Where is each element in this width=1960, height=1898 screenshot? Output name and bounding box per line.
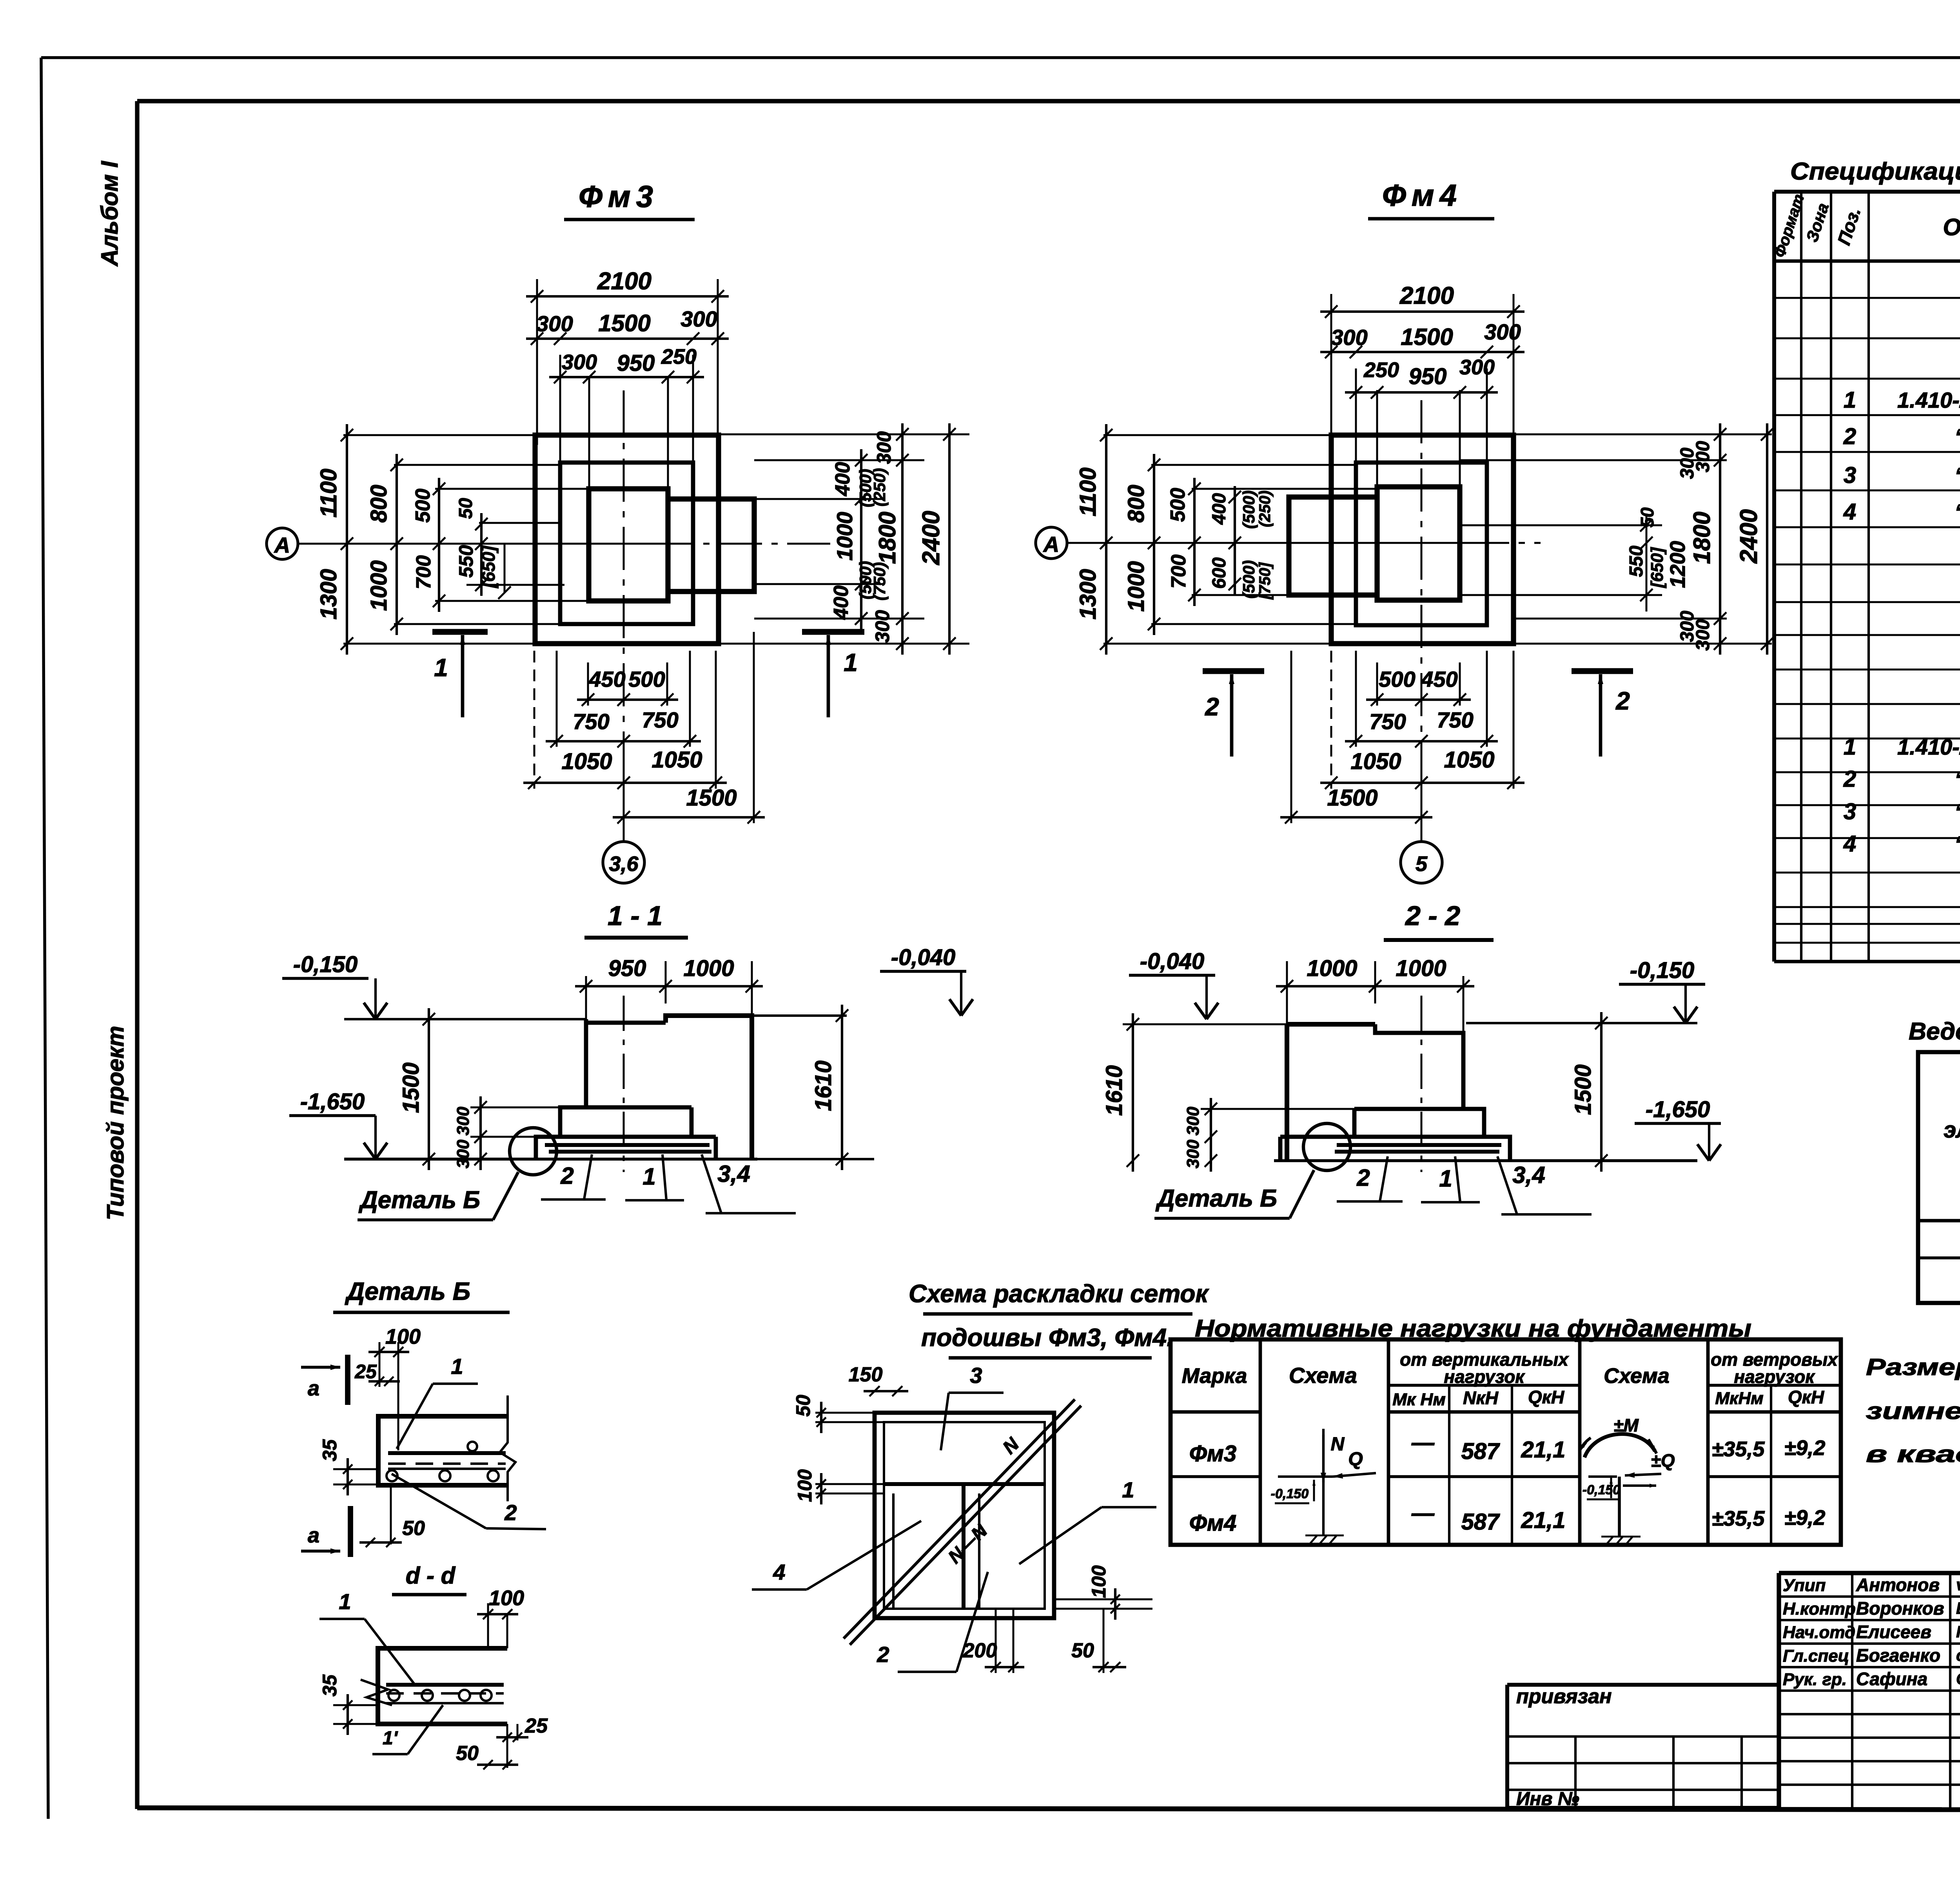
svg-text:1000: 1000	[1123, 561, 1149, 611]
svg-text:100: 100	[794, 1469, 816, 1502]
svg-text:нагрузок: нагрузок	[1734, 1366, 1815, 1387]
svg-text:2: 2	[560, 1163, 573, 1189]
схема label 3	[941, 1363, 1004, 1450]
svg-text:-0,150: -0,150	[1583, 1482, 1620, 1497]
section 1-1 slab reinforcement bars	[545, 1145, 711, 1152]
svg-text:1: 1	[844, 648, 858, 677]
svg-text:2400: 2400	[1735, 509, 1762, 564]
section 2-2 detail circle Б	[1303, 1123, 1350, 1170]
spec row 2 C(1)10AII-10x24	[1843, 424, 1960, 449]
svg-text:[650]: [650]	[1648, 547, 1667, 588]
d-d dim 25	[496, 1715, 548, 1742]
detail Б dim 100 top	[368, 1325, 421, 1450]
svg-text:1: 1	[1844, 387, 1856, 413]
d-d dim 35	[319, 1674, 378, 1735]
Фм3 plan title	[564, 179, 695, 220]
svg-text:±М: ±М	[1613, 1415, 1639, 1435]
svg-text:1: 1	[434, 653, 448, 682]
detail Б break line	[500, 1395, 515, 1501]
svg-text:±35,5: ±35,5	[1712, 1507, 1765, 1530]
svg-text:1: 1	[1439, 1165, 1452, 1192]
svg-text:-0,150: -0,150	[293, 952, 358, 977]
svg-text:1500: 1500	[1401, 324, 1453, 350]
svg-text:Богаенко: Богаенко	[1856, 1645, 1940, 1666]
svg-text:элемента: элемента	[1944, 1117, 1960, 1143]
section 2-2 bottom slab	[1280, 1137, 1510, 1161]
Фм4 bottom extension lines	[1291, 651, 1514, 842]
svg-text:N: N	[1331, 1434, 1345, 1455]
Фм3 outer footing square	[535, 435, 719, 644]
svg-text:NкН: NкН	[1463, 1388, 1499, 1408]
svg-text:1000: 1000	[366, 560, 392, 611]
svg-text:587: 587	[1461, 1439, 1501, 1464]
Фм4 axis circle 5	[1401, 842, 1442, 883]
svg-text:50: 50	[402, 1517, 425, 1540]
svg-text:550: 550	[455, 545, 477, 578]
svg-text:35: 35	[319, 1674, 341, 1697]
svg-text:1.410-2, вып.1: 1.410-2, вып.1	[1897, 388, 1960, 412]
Фм3 left extension lines	[343, 435, 589, 644]
detail Б label 2	[392, 1474, 546, 1529]
Фм3 vertical center line	[623, 390, 625, 741]
d-d label 3 bottom	[372, 1705, 443, 1754]
svg-text:Схема: Схема	[1604, 1364, 1670, 1388]
Фм3 right dim 300 1800 300	[871, 423, 909, 655]
Фм4 right dim 300 1800 300	[1677, 423, 1726, 655]
section 1-1 title	[584, 900, 688, 938]
svg-text:-0,150: -0,150	[1271, 1486, 1308, 1501]
svg-text:400: 400	[830, 586, 853, 620]
схема dim 50 left	[792, 1395, 884, 1433]
svg-text:1100: 1100	[316, 469, 341, 518]
Фм4 plan title	[1368, 178, 1494, 219]
svg-text:2 - 2: 2 - 2	[1405, 900, 1460, 931]
section 1-1 ground level line left	[344, 1018, 586, 1020]
Фм3 left dim 500 700	[412, 478, 445, 612]
svg-text:“: “	[1955, 799, 1960, 824]
d-d break line left	[361, 1680, 392, 1705]
Фм3 left dim 1100 1300	[316, 424, 353, 655]
section 1-1 center line	[623, 996, 625, 1172]
svg-text:привязан: привязан	[1516, 1685, 1612, 1708]
spec table grid	[1774, 192, 1960, 962]
svg-text:25: 25	[524, 1715, 548, 1737]
Фм4 dims 300 1500 300	[1320, 319, 1524, 358]
svg-text:700: 700	[1167, 555, 1190, 589]
svg-text:Фм3: Фм3	[1189, 1441, 1236, 1466]
section 1-1 ground line	[344, 1158, 757, 1161]
Фм4 right extension lines	[1460, 434, 1772, 644]
Фм3 bottom dim 1050 1050	[523, 747, 727, 789]
Фм3 right extension lines	[719, 434, 969, 644]
loads table data row Фм4	[1189, 1501, 1826, 1536]
title block outline	[1779, 1573, 1960, 1809]
svg-text:1800: 1800	[1689, 512, 1715, 564]
svg-text:2: 2	[877, 1642, 889, 1667]
схема mesh inner lines	[884, 1422, 1045, 1609]
section 2-2 ground level line right	[1466, 1022, 1697, 1024]
svg-text:1500: 1500	[598, 310, 650, 336]
Фм4 middle step square	[1356, 463, 1487, 625]
detail Б section marker a bottom	[301, 1506, 350, 1557]
section 1-1 dim 1610 vertical right	[752, 1005, 848, 1170]
svg-text:(250): (250)	[870, 468, 889, 506]
svg-text:1000: 1000	[832, 512, 857, 561]
svg-text:Н.контр: Н.контр	[1783, 1599, 1856, 1619]
section 2-2 title	[1384, 900, 1494, 940]
svg-text:950: 950	[617, 350, 655, 376]
svg-text:“: “	[1955, 767, 1960, 791]
section 2-2 rebar labels 2 1 3,4	[1337, 1156, 1592, 1214]
title block left привязан area	[1507, 1685, 1779, 1809]
схема mesh outer square	[875, 1413, 1054, 1618]
section 1-1 dim 300 300 vertical	[454, 1096, 560, 1170]
Фм4 right dim 50 550 [650] 1200	[1626, 507, 1690, 611]
svg-text:1000: 1000	[1307, 956, 1357, 981]
svg-text:4: 4	[773, 1560, 785, 1584]
svg-text:200: 200	[963, 1639, 997, 1662]
svg-text:400: 400	[831, 462, 854, 497]
svg-text:—: —	[1411, 1501, 1435, 1526]
svg-text:Обозначение: Обозначение	[1943, 214, 1960, 240]
loads table data row Фм3	[1189, 1430, 1826, 1466]
svg-text:100: 100	[1088, 1565, 1110, 1598]
section 1-1 dim 950 1000	[575, 956, 763, 1027]
spec row 1 C(1)10AII-8x24	[1844, 387, 1960, 413]
svg-text:750: 750	[1369, 709, 1406, 734]
d-d slab outline	[378, 1648, 507, 1724]
section 1-1 column right tall part	[666, 1016, 752, 1159]
svg-text:3,6: 3,6	[609, 852, 639, 876]
svg-text:Сафина: Сафина	[1856, 1669, 1927, 1689]
svg-text:в квадратных скобках tн=-40°: в квадратных скобках tн=-40°С	[1866, 1441, 1960, 1467]
Фм4 dims 250 950 300	[1345, 356, 1498, 487]
svg-text:450: 450	[588, 667, 625, 691]
svg-text:-1,650: -1,650	[300, 1089, 365, 1114]
svg-text:Деталь Б: Деталь Б	[345, 1277, 470, 1305]
svg-text:300: 300	[1331, 325, 1367, 350]
section 2-2 step	[1354, 1109, 1484, 1137]
svg-text:750: 750	[642, 708, 678, 732]
note text размеры в скобках	[1866, 1354, 1960, 1467]
svg-text:Фм3: Фм3	[579, 179, 659, 214]
svg-text:Типовой проект: Типовой проект	[102, 1026, 129, 1220]
svg-text:1: 1	[1844, 734, 1856, 760]
section 2-2 dim 1500 vertical right	[1570, 1012, 1608, 1172]
svg-text:300: 300	[1183, 1140, 1203, 1169]
Фм3 bottom dim 1500	[613, 785, 765, 824]
svg-text:1050: 1050	[652, 747, 702, 773]
svg-text:587: 587	[1461, 1509, 1501, 1535]
steel table texts	[1944, 1059, 1960, 1216]
Фм3 middle step square	[560, 463, 693, 624]
Фм4 dim 2100	[1320, 282, 1524, 445]
svg-text:500: 500	[1167, 488, 1189, 522]
section 2-2 slab reinforcement bars	[1335, 1145, 1501, 1152]
spec row 4b	[1843, 831, 1960, 856]
svg-text:Альбом I: Альбом I	[96, 161, 123, 267]
svg-text:±Q: ±Q	[1651, 1450, 1675, 1471]
svg-text:950: 950	[608, 956, 646, 981]
Фм3 axis circle 3,6	[603, 842, 644, 883]
svg-text:1 - 1: 1 - 1	[608, 900, 662, 931]
svg-text:Фм4: Фм4	[1189, 1510, 1236, 1536]
Фм4 section mark 2 right	[1572, 671, 1633, 757]
svg-text:“: “	[1955, 424, 1960, 449]
svg-text:Инв №: Инв №	[1516, 1789, 1579, 1809]
Фм3 dim 2100	[526, 268, 729, 445]
svg-text:300: 300	[536, 311, 573, 336]
svg-text:-0,040: -0,040	[1140, 949, 1204, 974]
svg-text:3,4: 3,4	[717, 1161, 750, 1187]
Фм4 left dim 800 1000	[1123, 454, 1160, 635]
section 1-1 column left part	[586, 1019, 666, 1107]
svg-text:Воронков: Воронков	[1856, 1598, 1944, 1619]
Фм4 axis A circle	[1036, 527, 1067, 559]
svg-text:QкН: QкН	[1528, 1387, 1564, 1407]
svg-text:950: 950	[1409, 364, 1447, 389]
section 2-2 ground line	[1274, 1159, 1697, 1162]
d-d label 1	[319, 1589, 416, 1686]
Фм3 bottom extension lines	[534, 632, 754, 842]
svg-text:250: 250	[661, 345, 697, 368]
section 2-2 column left tall part	[1287, 1024, 1375, 1161]
svg-text:300: 300	[681, 307, 717, 331]
svg-text:3: 3	[1844, 799, 1856, 824]
spec row 2b	[1843, 766, 1960, 792]
svg-text:800: 800	[366, 485, 392, 523]
spec table header texts	[1771, 192, 1960, 259]
svg-text:50: 50	[1637, 507, 1657, 528]
svg-text:А: А	[1043, 532, 1059, 557]
svg-text:2: 2	[1205, 693, 1219, 721]
spec row 4 C10AII-14x21	[1843, 499, 1960, 524]
svg-text:100: 100	[489, 1586, 524, 1610]
Фм3 section mark 1 left	[432, 632, 488, 717]
svg-text:зимней температуры воздуха: зимней температуры воздуха tн=-20°С,	[1866, 1398, 1960, 1424]
svg-text:2: 2	[1843, 424, 1856, 449]
svg-text:QкН: QкН	[1788, 1387, 1824, 1407]
Фм4 left dim 500 700	[1167, 478, 1201, 606]
svg-text:2: 2	[1615, 687, 1630, 715]
svg-text:300: 300	[1484, 319, 1521, 344]
Фм4 outer footing square	[1331, 435, 1514, 644]
svg-text:Марка: Марка	[1182, 1364, 1247, 1388]
svg-text:300: 300	[1183, 1107, 1203, 1136]
Фм3 column square	[589, 489, 668, 601]
svg-text:2100: 2100	[1399, 282, 1454, 309]
svg-text:100: 100	[385, 1325, 421, 1348]
title block signature grid	[1779, 1573, 1960, 1809]
svg-text:1800: 1800	[874, 512, 900, 564]
схема dim 100 right	[1054, 1565, 1152, 1620]
spec row 1b	[1844, 734, 1960, 760]
svg-text:1050: 1050	[1444, 747, 1494, 773]
svg-text:Фм4: Фм4	[1382, 178, 1462, 212]
section 1-1 step	[560, 1107, 691, 1137]
steel table grid	[1918, 1052, 1960, 1303]
d-d dim 50	[456, 1724, 518, 1769]
Фм4 left dim 1100 1300	[1075, 424, 1112, 655]
loads table grid	[1171, 1339, 1841, 1545]
svg-text:3: 3	[1844, 463, 1856, 488]
svg-text:400: 400	[1209, 493, 1230, 525]
spec row 3 C10AII-8x21	[1844, 463, 1960, 488]
svg-text:1: 1	[451, 1354, 463, 1379]
svg-text:300: 300	[562, 350, 597, 374]
схема label 1 right	[1019, 1477, 1156, 1564]
spec row 3b	[1844, 799, 1960, 824]
svg-text:5: 5	[1416, 852, 1428, 876]
svg-text:1500: 1500	[398, 1062, 424, 1113]
Фм3 right dim 2400	[918, 423, 956, 655]
Фм3 right dim 400 1000 400	[830, 449, 867, 630]
Фм4 right dim 2400	[1735, 423, 1773, 655]
svg-text:(750): (750)	[870, 562, 889, 601]
svg-text:300: 300	[454, 1140, 473, 1169]
section 1-1 detail circle Б	[510, 1128, 557, 1175]
svg-text:(250): (250)	[1256, 490, 1274, 527]
svg-text:300: 300	[873, 431, 895, 464]
схема dim 200	[963, 1609, 1024, 1673]
svg-text:Размеры в круглых скобках: Размеры в круглых скобках для расчетной	[1866, 1354, 1960, 1380]
svg-text:250: 250	[1363, 358, 1399, 382]
svg-text:300: 300	[1459, 356, 1495, 379]
detail Б rebar	[387, 1442, 506, 1481]
section 2-2 Деталь Б pointer	[1154, 1170, 1314, 1218]
svg-text:1300: 1300	[1075, 569, 1101, 619]
svg-text:А: А	[274, 533, 290, 557]
svg-text:—: —	[1411, 1430, 1435, 1455]
section d-d title	[392, 1562, 466, 1595]
svg-text:3: 3	[970, 1363, 982, 1388]
Фм3 bottom dim 450 500	[577, 667, 678, 706]
svg-text:d - d: d - d	[406, 1562, 456, 1589]
svg-text:Нач.отд: Нач.отд	[1783, 1623, 1855, 1642]
Фм3 left dim [650]	[478, 544, 511, 599]
svg-text:1500: 1500	[686, 785, 737, 811]
svg-text:Мк Нм: Мк Нм	[1392, 1390, 1446, 1409]
svg-text:1610: 1610	[811, 1060, 836, 1111]
Фм4 left small dims (500)(250)	[1240, 490, 1274, 600]
svg-text:Антонов: Антонов	[1856, 1575, 1940, 1595]
svg-text:1000: 1000	[1396, 956, 1446, 981]
svg-text:“: “	[1955, 499, 1960, 524]
svg-text:300: 300	[871, 610, 893, 643]
схема dim 150	[849, 1363, 908, 1396]
svg-text:Деталь Б: Деталь Б	[358, 1187, 480, 1214]
svg-text:v.Лал: v.Лал	[1956, 1575, 1960, 1594]
Фм3 dims 300 950 250	[549, 345, 704, 489]
svg-text:±9,2: ±9,2	[1784, 1436, 1826, 1460]
svg-text:550: 550	[1626, 546, 1647, 577]
svg-text:2: 2	[1843, 766, 1856, 792]
svg-text:Схема: Схема	[1289, 1363, 1357, 1388]
схема label 2	[877, 1572, 988, 1672]
section 1-1 dim 1500 vertical	[398, 1008, 435, 1170]
svg-text:750: 750	[573, 709, 609, 734]
svg-text:Гепср: Гепср	[1956, 1622, 1960, 1641]
svg-text:800: 800	[1123, 485, 1149, 523]
svg-text:Упип: Упип	[1783, 1576, 1826, 1595]
svg-text:[750]: [750]	[1256, 562, 1274, 600]
svg-text:1000: 1000	[683, 956, 734, 981]
svg-text:21,1: 21,1	[1521, 1437, 1566, 1463]
Фм3 bottom dim 750 750	[546, 708, 701, 748]
detail Б dim 50	[359, 1485, 425, 1547]
svg-text:“: “	[1955, 463, 1960, 488]
section 2-2 dim 1610 vertical left	[1102, 1013, 1287, 1172]
svg-text:(500): (500)	[1240, 490, 1258, 529]
svg-text:500: 500	[628, 667, 665, 691]
Фм4 section mark 2 left	[1203, 671, 1264, 757]
section 1-1 Деталь Б pointer	[358, 1172, 518, 1220]
svg-text:a: a	[308, 1377, 319, 1400]
section 2-2 dim 300 300 vertical	[1183, 1098, 1354, 1172]
detail Б slab corner outline	[378, 1416, 508, 1485]
svg-text:-0,040: -0,040	[891, 945, 955, 970]
svg-text:1300: 1300	[316, 569, 341, 619]
svg-text:35: 35	[319, 1439, 341, 1461]
detail Б section marker a top	[301, 1355, 348, 1405]
svg-text:1050: 1050	[561, 749, 612, 774]
svg-text:1500: 1500	[1327, 785, 1377, 811]
loads table header texts	[1182, 1349, 1839, 1409]
Фм3 axis A line	[299, 543, 651, 545]
Фм3 left dim 50 550	[455, 498, 564, 596]
svg-text:300: 300	[1693, 441, 1713, 472]
Фм4 bottom dim 750 750	[1345, 708, 1498, 748]
Фм4 bottom dim 1050 1050	[1320, 747, 1524, 789]
svg-text:подошвы Фм3, Фм4.: подошвы Фм3, Фм4.	[921, 1323, 1174, 1352]
svg-text:300: 300	[454, 1107, 473, 1136]
title block signatures	[1783, 1575, 1960, 1689]
Фм4 bottom dim 1500	[1280, 785, 1432, 824]
svg-text:1200: 1200	[1666, 541, 1690, 588]
detail Б dim 35	[319, 1439, 378, 1495]
svg-text:150: 150	[849, 1363, 883, 1386]
svg-text:1: 1	[1122, 1477, 1134, 1502]
svg-text:50: 50	[1071, 1639, 1094, 1662]
axis A circle	[267, 528, 298, 559]
svg-text:Спецификация элементов монол: Спецификация элементов монолитной констр…	[1790, 158, 1960, 185]
svg-text:450: 450	[1421, 667, 1457, 691]
loads schema wind loads sketch	[1579, 1415, 1675, 1546]
section 2-2 column right part	[1375, 1024, 1463, 1109]
svg-text:1050: 1050	[1350, 749, 1401, 774]
section 2-2 center line	[1421, 996, 1423, 1172]
svg-text:700: 700	[412, 555, 435, 590]
схема dim 100 left	[794, 1469, 884, 1504]
svg-text:2: 2	[1356, 1165, 1370, 1191]
svg-text:Схема раскладки сеток: Схема раскладки сеток	[909, 1279, 1209, 1308]
svg-text:4: 4	[1843, 499, 1856, 524]
svg-text:750: 750	[1437, 708, 1473, 732]
svg-text:50: 50	[456, 498, 476, 519]
svg-text:1100: 1100	[1075, 468, 1101, 517]
svg-text:600: 600	[1209, 557, 1230, 589]
svg-text:(500): (500)	[1240, 560, 1258, 599]
svg-text:Q: Q	[1348, 1449, 1363, 1470]
svg-text:[650]: [650]	[478, 545, 499, 589]
svg-text:Рук. гр.: Рук. гр.	[1783, 1670, 1847, 1689]
svg-text:±9,2: ±9,2	[1784, 1506, 1826, 1530]
svg-text:500: 500	[412, 489, 434, 523]
Фм4 bottom dim 500 450	[1366, 667, 1471, 706]
svg-text:3,4: 3,4	[1512, 1162, 1545, 1188]
svg-text:1.410-2, вып.1: 1.410-2, вып.1	[1897, 735, 1960, 759]
Фм3 column right extension	[668, 499, 754, 592]
